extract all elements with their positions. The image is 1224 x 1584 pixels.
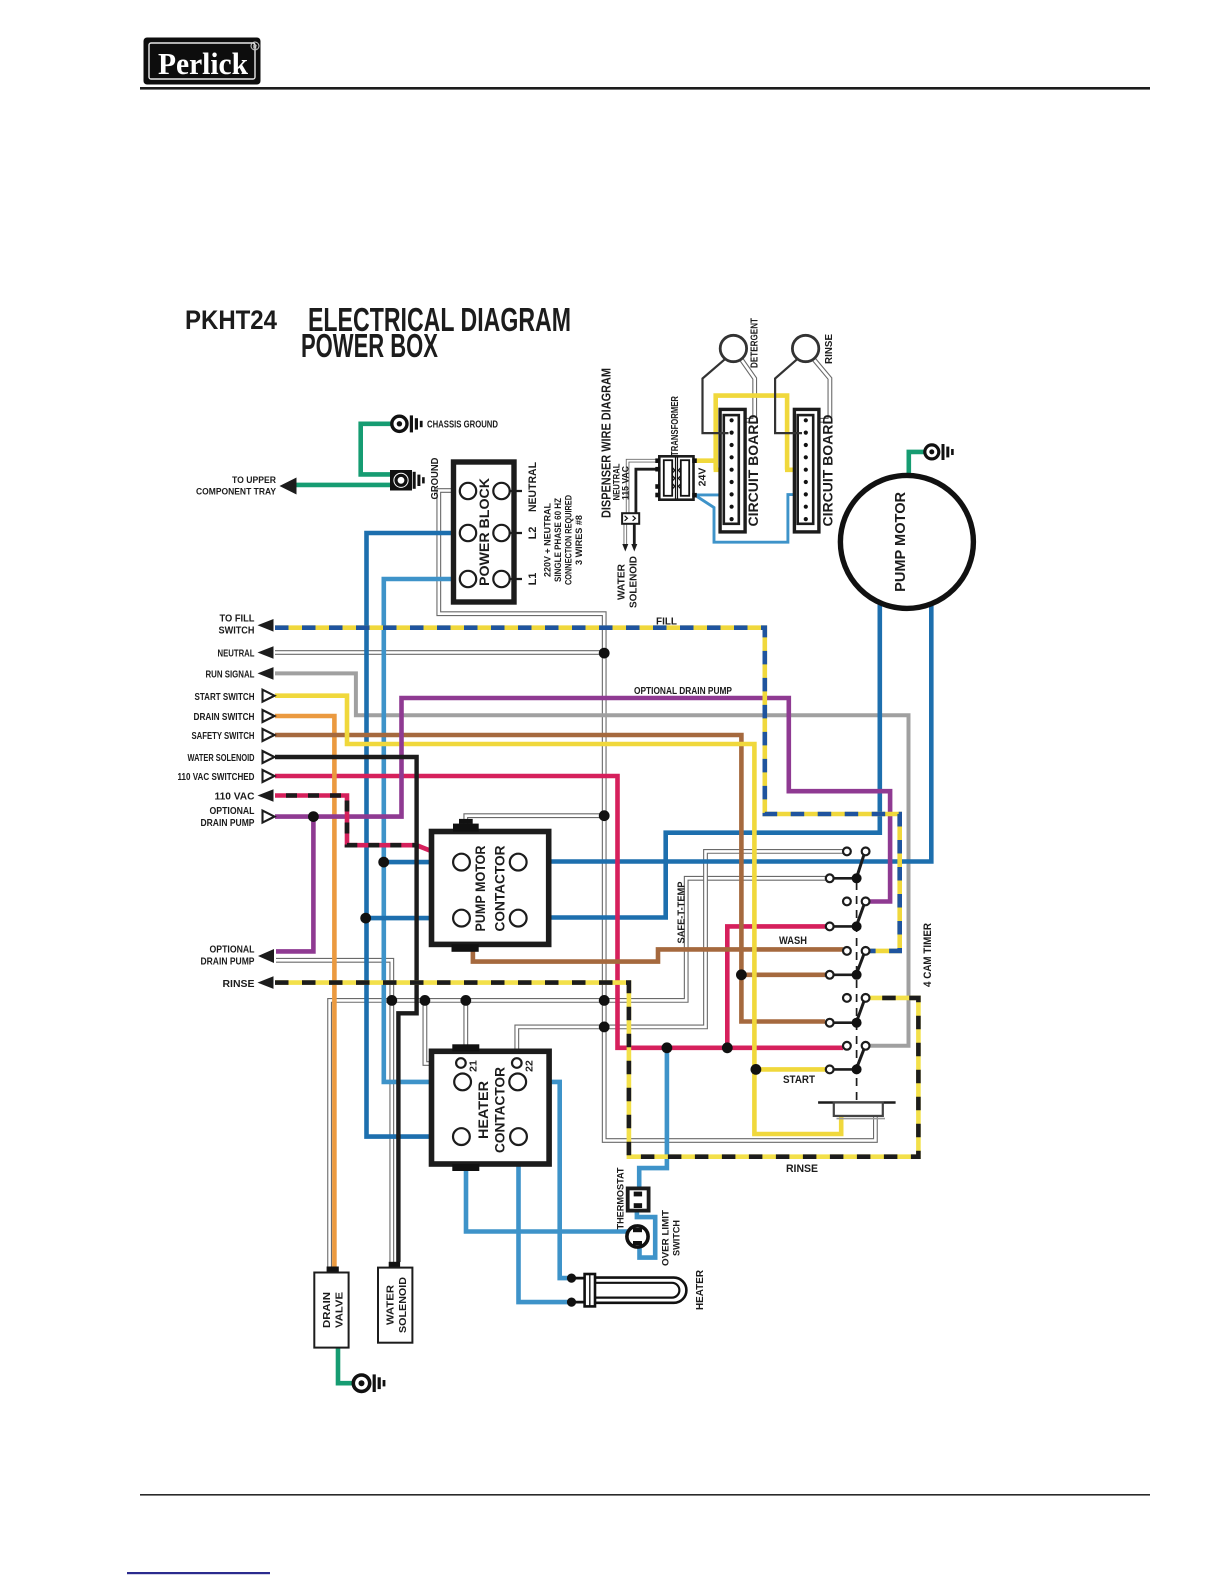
Perlick logo	[144, 38, 260, 84]
svg-text:START: START	[783, 1074, 815, 1086]
svg-text:CONTACTOR: CONTACTOR	[493, 845, 508, 931]
wire black water solenoid feed	[275, 757, 417, 1262]
wire green pump motor ground	[909, 452, 925, 476]
wire blue transformer 24v to circuit board 1	[694, 493, 729, 496]
svg-text:SWITCH: SWITCH	[219, 625, 255, 637]
power block	[454, 462, 523, 602]
over limit switch	[627, 1226, 648, 1247]
svg-text:CHASSIS GROUND: CHASSIS GROUND	[427, 420, 498, 431]
4 cam timer dashed cam line	[856, 882, 858, 1102]
svg-text:START SWITCH: START SWITCH	[195, 691, 255, 703]
svg-text:L1: L1	[527, 573, 539, 586]
arrow to fill switch	[219, 613, 274, 637]
dispenser connector block	[622, 513, 639, 524]
wire crimson riser to S2 lower contact	[727, 926, 825, 1047]
wire orange drain switch to drain valve	[275, 716, 334, 1267]
wire brown safety switch to S3/S4 lower contacts	[275, 735, 825, 1022]
svg-text:21: 21	[468, 1060, 480, 1072]
svg-text:PKHT24: PKHT24	[185, 305, 277, 335]
wire dashed 110 vac (crimson/black)	[275, 796, 417, 846]
arrow water solenoid	[188, 751, 275, 764]
arrow rinse	[223, 976, 274, 990]
svg-text:SOLENOID: SOLENOID	[397, 1277, 409, 1333]
wire white detergent pump right lead	[735, 359, 755, 421]
cam switch S4	[826, 994, 870, 1027]
wire gray run signal	[275, 673, 909, 1045]
svg-text:TO UPPER: TO UPPER	[232, 475, 276, 486]
wire green chassis ground to ground terminal	[361, 424, 392, 475]
chassis ground (top)	[392, 415, 423, 432]
wire blue 110vac to thermostat	[639, 1048, 667, 1189]
svg-text:THERMOSTAT: THERMOSTAT	[616, 1167, 627, 1229]
svg-text:110 VAC SWITCHED: 110 VAC SWITCHED	[178, 771, 255, 783]
cam switch S3	[826, 947, 870, 979]
cam switch S1	[826, 848, 870, 883]
svg-text:HEATER: HEATER	[695, 1269, 706, 1310]
svg-text:RINSE: RINSE	[824, 334, 835, 364]
svg-text:CONTACTOR: CONTACTOR	[493, 1067, 508, 1153]
wire black transformer 115vac	[631, 469, 659, 551]
wire blue L2 feed to heater contactor	[367, 533, 469, 1137]
wire white neutral backbone from power block	[439, 491, 876, 1141]
svg-text:OVER LIMIT: OVER LIMIT	[661, 1210, 672, 1266]
wire white horizontal bus to S1 lower contact and drain valve	[330, 878, 826, 1267]
svg-text:WATER: WATER	[385, 1285, 397, 1325]
svg-text:CIRCUIT BOARD: CIRCUIT BOARD	[821, 414, 836, 526]
svg-text:22: 22	[524, 1060, 536, 1072]
chassis ground (drain valve)	[353, 1374, 385, 1392]
wire blue thermostat to over limit switch	[637, 1211, 655, 1258]
arrow neutral	[218, 646, 274, 659]
cam switch S5	[826, 1042, 870, 1073]
wire white optional drain pump 2 to water solenoid	[276, 960, 392, 1263]
arrow drain switch	[194, 710, 275, 723]
arrow optional drain pump 1	[201, 805, 275, 829]
svg-text:110 VAC: 110 VAC	[215, 791, 255, 803]
chassis ground (pump motor)	[925, 444, 954, 460]
svg-text:POWER BOX: POWER BOX	[301, 327, 438, 364]
wire green ground terminal to upper component tray	[296, 483, 391, 488]
wire blue heater coil tab to over limit switch	[466, 1170, 629, 1231]
svg-text:TRANSFORMER: TRANSFORMER	[670, 395, 681, 456]
svg-text:COMPONENT TRAY: COMPONENT TRAY	[196, 487, 277, 498]
svg-text:DETERGENT: DETERGENT	[750, 318, 761, 368]
timer motor	[818, 1103, 896, 1119]
wire white branch to terminal 21	[425, 1000, 457, 1063]
svg-text:DRAIN PUMP: DRAIN PUMP	[201, 956, 255, 968]
svg-text:PUMP MOTOR: PUMP MOTOR	[473, 845, 488, 931]
svg-text:SAFETY SWITCH: SAFETY SWITCH	[192, 730, 255, 742]
svg-text:SWITCH: SWITCH	[672, 1220, 683, 1256]
svg-text:4 CAM TIMER: 4 CAM TIMER	[922, 923, 934, 987]
arrow 110 vac switched	[178, 770, 275, 783]
ground terminal block	[391, 471, 425, 491]
wire yellow start switch to timer motor	[275, 696, 841, 1134]
wire blue heater contactor TR to heater	[526, 1082, 569, 1278]
svg-text:NEUTRAL: NEUTRAL	[218, 648, 255, 660]
wire purple optional drain pump to S2 pivot	[275, 698, 890, 902]
svg-text:220V + NEUTRAL: 220V + NEUTRAL	[543, 503, 553, 577]
arrow start switch	[195, 690, 275, 703]
wire blue row2 to pump contactor BL	[366, 916, 454, 921]
svg-text:NEUTRAL: NEUTRAL	[527, 462, 539, 512]
svg-text:RINSE: RINSE	[223, 978, 255, 990]
svg-text:GROUND: GROUND	[430, 458, 441, 500]
svg-text:VALVE: VALVE	[334, 1292, 346, 1328]
svg-text:3 WIRES #8: 3 WIRES #8	[574, 515, 584, 565]
water solenoid	[378, 1262, 412, 1343]
svg-text:OPTIONAL: OPTIONAL	[210, 944, 255, 956]
wire white water solenoid arrow (dispenser)	[622, 524, 628, 552]
arrow optional drain pump 2	[201, 944, 275, 968]
wire blue pump contactor TR to pump motor right lead	[526, 603, 931, 861]
svg-text:RINSE: RINSE	[786, 1163, 818, 1175]
detergent pump	[703, 335, 747, 433]
svg-text:CIRCUIT BOARD: CIRCUIT BOARD	[746, 414, 761, 526]
svg-text:L2: L2	[527, 527, 539, 540]
wire crimson diagonal into pump contactor TL	[417, 845, 456, 860]
drain valve	[314, 1267, 348, 1348]
wire blue L1 feed to heater contactor	[384, 579, 468, 1082]
svg-text:WASH: WASH	[779, 935, 807, 947]
header rule	[140, 87, 1150, 90]
svg-text:POWER BLOCK: POWER BLOCK	[476, 478, 492, 586]
svg-text:OPTIONAL: OPTIONAL	[210, 805, 255, 817]
junction node dots	[308, 648, 862, 1307]
svg-text:WATER: WATER	[617, 563, 628, 600]
svg-text:DRAIN PUMP: DRAIN PUMP	[201, 817, 255, 829]
note 220V connection text	[543, 495, 585, 585]
heater element	[575, 1274, 686, 1306]
svg-text:R: R	[253, 45, 257, 51]
wire white branch to heater contactor coil tab	[463, 1000, 468, 1045]
wire dashed fill (yellow/blue) to fill switch	[275, 628, 900, 951]
svg-text:SAFE-T-TEMP: SAFE-T-TEMP	[676, 882, 688, 944]
cam switch S2	[826, 898, 870, 931]
wire blue heater contactor BR to heater	[519, 1143, 570, 1302]
over limit switch label	[661, 1210, 683, 1266]
wire white S1 upper contact to terminal 22	[517, 851, 843, 1058]
rinse pump	[775, 335, 819, 433]
wire white neutral to left arrow	[275, 650, 604, 655]
pump motor	[840, 475, 973, 608]
wire blue pump contactor BR to pump motor left lead	[526, 602, 879, 917]
footer link line	[127, 1572, 270, 1574]
wire yellow branch to S5 lower contact	[756, 1067, 826, 1072]
svg-text:RUN SIGNAL: RUN SIGNAL	[206, 669, 255, 681]
arrow run signal	[206, 667, 274, 680]
heater contactor	[432, 1044, 550, 1171]
wire purple optional drain pump output	[276, 817, 313, 952]
thermostat	[628, 1188, 649, 1210]
wire blue row1 to pump contactor TL	[384, 860, 454, 865]
wire white transformer neutral	[628, 461, 660, 514]
svg-text:WATER SOLENOID: WATER SOLENOID	[188, 752, 255, 764]
svg-text:SOLENOID: SOLENOID	[629, 556, 640, 608]
svg-text:PUMP MOTOR: PUMP MOTOR	[892, 492, 909, 592]
wire dashed rinse (yellow/black) loop	[275, 983, 918, 1157]
transformer	[655, 456, 697, 499]
svg-text:TO FILL: TO FILL	[220, 613, 256, 625]
wire crimson 110 vac switched	[275, 776, 843, 1048]
footer rule	[140, 1494, 1150, 1496]
svg-text:115 VAC: 115 VAC	[621, 465, 631, 500]
svg-text:HEATER: HEATER	[476, 1081, 491, 1139]
pump motor contactor	[432, 819, 549, 952]
svg-text:FILL: FILL	[656, 616, 678, 628]
arrow 110 vac	[215, 789, 274, 803]
dispenser water solenoid label	[617, 556, 640, 608]
wire brown wash from pump contactor coil	[473, 949, 843, 961]
wire white rinse pump right lead	[808, 359, 830, 421]
wire white branch to pump motor contactor coil tab	[466, 816, 604, 825]
svg-text:DRAIN: DRAIN	[321, 1292, 333, 1328]
circuit board 2	[794, 409, 835, 532]
wire blue transformer 24v to circuit board 2	[697, 495, 803, 543]
wire yellow transformer 24v to circuit boards	[694, 458, 716, 463]
arrow safety switch	[192, 729, 275, 742]
svg-text:CONNECTION REQUIRED: CONNECTION REQUIRED	[564, 495, 574, 585]
svg-text:24V: 24V	[697, 468, 709, 487]
wire brown branch to S3 lower contact	[741, 972, 825, 977]
svg-text:Perlick: Perlick	[158, 46, 249, 81]
svg-text:OPTIONAL DRAIN PUMP: OPTIONAL DRAIN PUMP	[634, 685, 732, 697]
wire green drain valve ground	[338, 1348, 353, 1384]
svg-text:SINGLE PHASE 60 HZ: SINGLE PHASE 60 HZ	[553, 498, 563, 582]
circuit board 1	[720, 409, 761, 532]
to upper component tray arrow	[196, 475, 297, 498]
svg-text:DRAIN SWITCH: DRAIN SWITCH	[194, 711, 255, 723]
